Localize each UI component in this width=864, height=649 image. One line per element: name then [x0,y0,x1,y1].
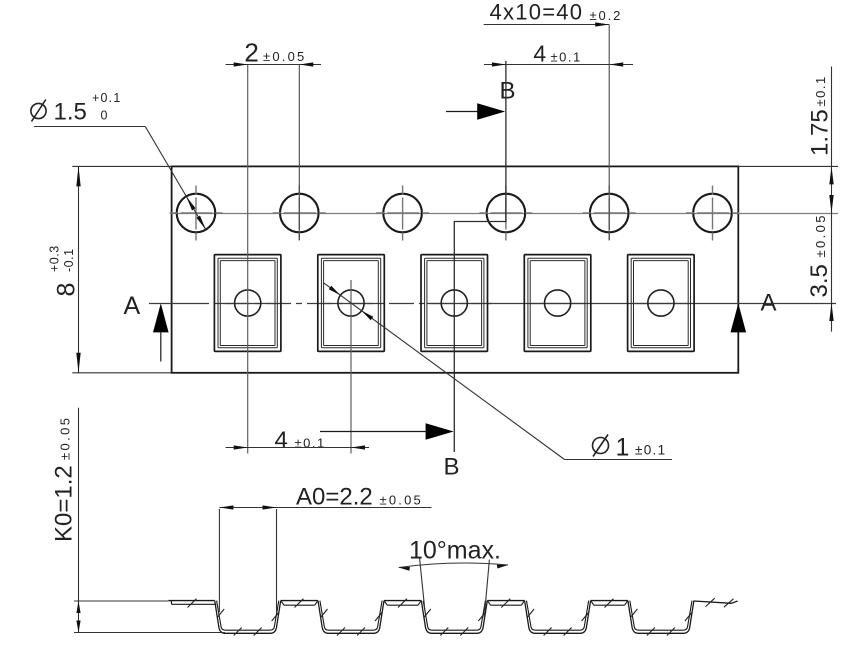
section pocket 5 profile [628,601,694,634]
svg-text:-0.1: -0.1 [62,248,76,272]
svg-text:A: A [124,292,141,320]
svg-text:0: 0 [101,109,108,123]
section pocket 3 profile [421,601,487,634]
tape top edge extension (left, for 8 dim) [72,165,171,167]
svg-text:K0=1.2: K0=1.2 [51,465,78,542]
tape bottom edge extension (left, for 8 dim) [72,372,171,374]
svg-text:A: A [761,290,777,317]
svg-text:±0.1: ±0.1 [813,75,828,106]
dimension 8 +0.3/-0.1 (tape width) [48,166,81,372]
svg-text:±0.05: ±0.05 [813,213,828,257]
section pocket 2 profile [318,601,384,634]
dimension 4x10=40 ±0.2 (cumulative sprocket pitch) [484,0,623,240]
svg-text:±0.05: ±0.05 [380,492,423,507]
section cutting line B-B (jogged) [454,61,506,452]
section hatch marks [188,598,734,635]
dimension K0=1.2 ±0.05 (pocket depth) [51,408,226,633]
pocket centerline solid end segments [149,303,184,305]
section arrow A (left) [124,292,169,362]
svg-text:1.5: 1.5 [54,99,87,126]
svg-text:+0.1: +0.1 [92,91,121,105]
section pocket 1 profile [215,601,281,634]
section arrow A (right) [731,290,777,333]
svg-text:3.5: 3.5 [806,264,833,297]
svg-text:10°max.: 10°max. [409,537,501,565]
svg-text:1.75: 1.75 [807,109,834,156]
dimension 4 ±0.1 (pocket pitch, bottom) [226,427,370,454]
dimension 1.75 ±0.1 (tape edge to sprocket centerline) [807,67,834,332]
sprocket hole 1 [170,186,223,241]
pocket centerline A-A (dash-dot) [184,303,492,305]
leader 10°max (pocket wall draft angle) [399,537,508,618]
dimension 4 ±0.1 (sprocket pitch, top) [484,41,633,67]
sprocket hole 6 [686,186,739,241]
svg-text:±0.1: ±0.1 [295,436,326,451]
svg-text:+0.3: +0.3 [48,245,62,272]
component pocket 5 [628,255,695,352]
component pocket 1 [214,65,281,454]
pocket centerline solid segments through pockets [220,303,688,305]
svg-text:±0.1: ±0.1 [635,443,666,458]
sprocket hole 2 [273,186,326,241]
section view tape top surface [169,600,628,602]
svg-text:4: 4 [275,427,288,454]
svg-text:1: 1 [616,434,630,462]
svg-text:A0=2.2: A0=2.2 [296,484,373,511]
sprocket hole 5 [583,186,636,241]
leader Ø1.5 +0.1/0 (sprocket hole diameter) [31,91,206,230]
sprocket hole 4 [479,186,532,241]
svg-text:4: 4 [533,41,546,67]
svg-text:8: 8 [53,283,81,297]
svg-text:2: 2 [244,38,258,68]
section arrow B (bottom) [320,423,460,480]
section pocket 4 profile [525,601,591,634]
section arrow B (top) [446,78,516,120]
svg-text:B: B [500,78,516,105]
svg-text:4x10=40: 4x10=40 [490,0,584,24]
dimension 2 ±0.05 (pocket center to sprocket center) [226,38,322,240]
component pocket 4 [524,255,591,352]
leader Ø1 ±0.1 (pocket hole diameter) [324,283,672,461]
sprocket hole centerline (horizontal) [172,213,838,215]
dimension A0=2.2 ±0.05 (pocket opening width) [219,484,431,613]
component pocket 3 [421,255,488,352]
tape top edge extension (right, for 1.75 dim) [738,165,838,167]
svg-text:±0.2: ±0.2 [590,8,623,23]
section view tape underside [172,601,738,606]
svg-text:±0.05: ±0.05 [58,416,73,460]
dimension 3.5 ±0.05 (sprocket centerline to pocket centerline) [806,213,834,321]
component pocket 2 [318,255,385,454]
sprocket hole 3 [376,186,429,241]
svg-text:B: B [444,454,460,481]
svg-text:±0.1: ±0.1 [551,49,582,64]
svg-text:±0.05: ±0.05 [263,49,306,64]
carrier tape outline (top view) [172,166,739,372]
